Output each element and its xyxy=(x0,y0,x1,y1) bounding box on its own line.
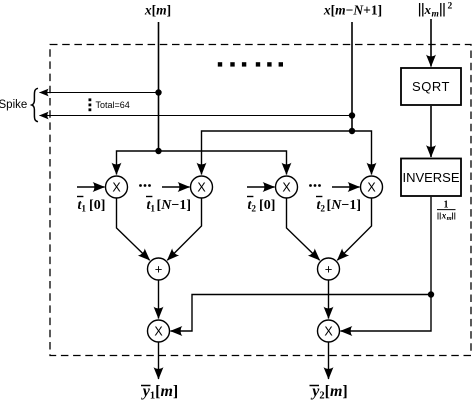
multiplier X2a xyxy=(276,176,298,198)
svg-text:X: X xyxy=(154,325,163,339)
wire: bus to X2a (right branch of y=151 line) xyxy=(159,151,287,175)
svg-text:t1[N−1]: t1[N−1] xyxy=(147,198,191,215)
svg-text:X: X xyxy=(367,181,376,195)
wire: x[m-N+1] vertical drop xyxy=(351,22,353,131)
wire: bus to X1a (left branch of y=151 line) xyxy=(117,151,159,175)
junction dot at (352,131) xyxy=(349,128,355,134)
wire: bus to X1b (left branch of y=131 line) xyxy=(202,131,353,175)
multiplier X1b xyxy=(191,176,213,198)
dashed enclosure box xyxy=(50,45,471,356)
label ||x_m||^2 xyxy=(420,2,453,20)
wire SQRT to INVERSE xyxy=(430,106,432,157)
wire scale branch to X1c xyxy=(171,295,432,332)
svg-text:2: 2 xyxy=(448,2,453,12)
dots between X2a and X2b xyxy=(309,184,321,187)
tap input arrow into X1b xyxy=(162,186,190,188)
label t1[0] xyxy=(77,197,105,215)
svg-text:X: X xyxy=(282,181,291,195)
label 1/||x_m|| fraction xyxy=(437,200,456,223)
wire output y1 xyxy=(158,342,160,379)
vertical ellipsis between spike wires xyxy=(89,98,92,111)
svg-text:INVERSE: INVERSE xyxy=(402,170,459,185)
multiplier X1c xyxy=(148,320,170,342)
wire adder1 to X1c xyxy=(158,280,160,319)
INVERSE block xyxy=(401,159,461,197)
svg-text:x[m−N+1]: x[m−N+1] xyxy=(323,3,382,18)
svg-text:Spike: Spike xyxy=(0,99,27,111)
wire X2a output to adder 2 xyxy=(287,198,320,260)
wire X1a output to adder 1 xyxy=(117,198,150,260)
wire adder2 to X2c xyxy=(328,280,330,319)
svg-text:t2[0]: t2[0] xyxy=(248,198,276,215)
dots between X1a and X1b xyxy=(139,184,151,187)
svg-text:SQRT: SQRT xyxy=(412,79,450,94)
svg-text:x: x xyxy=(424,2,432,17)
junction dot at (431,294.5) xyxy=(428,291,434,297)
junction dot on x[m-N+1] line at spike wire 2 xyxy=(349,112,355,118)
svg-text:m: m xyxy=(447,215,452,222)
curly brace xyxy=(32,88,38,121)
svg-text:1: 1 xyxy=(444,200,449,211)
wire X2b output to adder 2 xyxy=(337,198,371,260)
wire: x[m] vertical drop xyxy=(158,22,160,151)
tap input arrow into X1a xyxy=(77,186,105,188)
svg-text:+: + xyxy=(155,262,163,277)
svg-text:X: X xyxy=(324,325,333,339)
wire: bus to X2b (right branch of y=131 line) xyxy=(352,131,372,175)
adder 2 xyxy=(318,258,340,280)
adder 1 xyxy=(148,258,170,280)
label t2[N-1] xyxy=(316,197,361,215)
label y2[m] xyxy=(310,383,348,401)
svg-text:+: + xyxy=(325,262,333,277)
label t1[N-1] xyxy=(146,197,191,215)
svg-text:X: X xyxy=(112,181,121,195)
wire: norm^2 input arrow into SQRT xyxy=(430,19,432,67)
svg-text:Total=64: Total=64 xyxy=(96,100,130,110)
label y1[m] xyxy=(141,383,178,401)
row of six square dots xyxy=(218,62,283,66)
svg-text:X: X xyxy=(197,181,206,195)
wire output y2 xyxy=(328,342,330,379)
label t2[0] xyxy=(247,197,275,215)
spike output wire 2 (from x[m-N+1] line) xyxy=(40,115,353,117)
junction dot at (158.5,151) xyxy=(155,148,161,154)
wire INVERSE output down and into X2c xyxy=(341,197,432,331)
multiplier X2c xyxy=(318,320,340,342)
spike output wire 1 (from x[m] line) xyxy=(40,92,159,94)
svg-text:t2[N−1]: t2[N−1] xyxy=(317,198,361,215)
SQRT block xyxy=(401,68,461,105)
svg-text:m: m xyxy=(432,9,439,19)
junction dot on x[m] line at spike wire 1 xyxy=(155,89,161,95)
svg-text:t1[0]: t1[0] xyxy=(78,198,106,215)
multiplier X2b xyxy=(361,176,383,198)
wire X1b output to adder 1 xyxy=(167,198,201,260)
multiplier X1a xyxy=(106,176,128,198)
svg-text:x[m]: x[m] xyxy=(144,3,171,18)
tap input arrow into X2b xyxy=(332,186,360,188)
tap input arrow into X2a xyxy=(247,186,275,188)
